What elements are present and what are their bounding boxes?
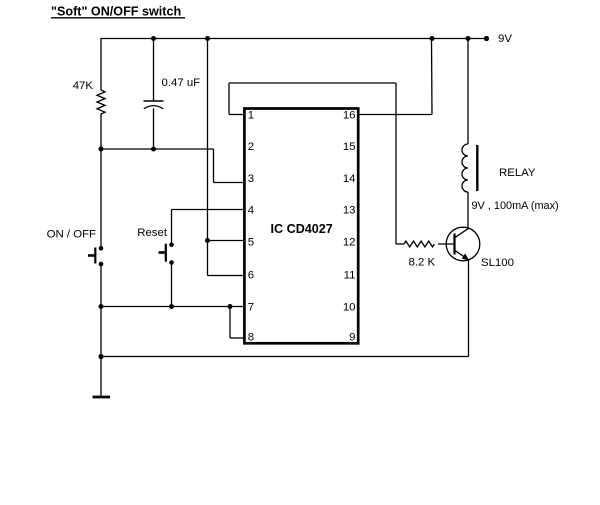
junction dot rail-pin5 vertical xyxy=(205,36,210,41)
wire pin4 down to Reset switch xyxy=(171,210,173,244)
svg-text:RELAY: RELAY xyxy=(499,167,536,179)
relay coil L1 xyxy=(462,144,477,192)
junction dot left-pin7row xyxy=(99,304,104,309)
wire node horizontal xyxy=(101,148,214,150)
svg-text:SL100: SL100 xyxy=(481,257,514,269)
svg-text:4: 4 xyxy=(248,205,254,217)
svg-text:8: 8 xyxy=(248,332,254,344)
wire pin 5 xyxy=(208,240,245,242)
wire relay branch upper xyxy=(467,39,469,145)
wire pin1 up xyxy=(228,83,230,115)
svg-text:Reset: Reset xyxy=(137,227,168,239)
switch Reset xyxy=(159,242,174,264)
wire 47K branch lower xyxy=(100,114,102,149)
resistor 47K xyxy=(97,90,105,114)
wire pin16 up to rail xyxy=(431,39,434,115)
IC U1 CD4027 body xyxy=(244,109,358,344)
switch ON/OFF xyxy=(88,246,103,266)
wire top 9V rail xyxy=(101,38,488,40)
svg-text:9V: 9V xyxy=(498,33,512,45)
svg-text:13: 13 xyxy=(343,205,356,217)
svg-text:ON / OFF: ON / OFF xyxy=(47,229,96,241)
svg-text:3: 3 xyxy=(248,173,254,185)
svg-text:10: 10 xyxy=(343,302,356,314)
wire rail to pin6 vertical xyxy=(207,39,209,276)
wire pin 6 xyxy=(208,275,245,277)
svg-text:9: 9 xyxy=(349,332,355,344)
wire pin 7 row xyxy=(101,306,245,308)
svg-text:1: 1 xyxy=(248,110,254,122)
junction dot bottom wire xyxy=(98,354,103,359)
wire relay to collector xyxy=(467,192,469,229)
svg-text:6: 6 xyxy=(248,270,254,282)
svg-text:16: 16 xyxy=(343,110,356,122)
svg-text:47K: 47K xyxy=(73,80,94,92)
junction dot pin5 xyxy=(205,238,210,243)
wire 8.2K lead left xyxy=(396,243,404,245)
wire bottom return xyxy=(101,356,469,358)
wire pin 16 xyxy=(358,114,432,116)
svg-text:15: 15 xyxy=(343,141,356,153)
wire pin 8 xyxy=(230,337,245,339)
svg-text:7: 7 xyxy=(248,302,254,314)
junction dot rail-capacitor xyxy=(151,36,156,41)
svg-text:0.47 uF: 0.47 uF xyxy=(162,77,201,89)
wire pin 3 xyxy=(214,182,245,184)
node 9V terminal dot xyxy=(484,36,489,41)
junction dot rail-pin16 xyxy=(430,36,435,41)
resistor 8.2K xyxy=(404,241,434,247)
svg-text:12: 12 xyxy=(343,237,356,249)
wire pin 1 xyxy=(229,114,245,116)
wire emitter down xyxy=(468,260,470,357)
svg-text:8.2 K: 8.2 K xyxy=(409,257,436,269)
transistor Q1 SL100 xyxy=(446,227,480,261)
wire Reset switch down xyxy=(171,263,173,307)
wire node to ON/OFF switch xyxy=(100,149,102,247)
svg-text:"Soft" ON/OFF switch: "Soft" ON/OFF switch xyxy=(51,5,181,19)
junction dot pin8 branch xyxy=(228,304,233,309)
wire 47K branch upper xyxy=(100,39,102,91)
svg-text:9V , 100mA (max): 9V , 100mA (max) xyxy=(472,200,559,212)
svg-text:11: 11 xyxy=(344,270,356,282)
junction dot reset-pin7row xyxy=(169,304,174,309)
wire left ground vertical xyxy=(100,307,102,398)
svg-text:2: 2 xyxy=(248,141,254,153)
junction dot node-47K xyxy=(99,147,104,152)
svg-text:5: 5 xyxy=(248,237,254,249)
title "Soft" ON/OFF switch xyxy=(51,5,185,19)
wire node down to pin3 xyxy=(213,149,215,183)
wire pin 4 xyxy=(172,209,245,211)
wire pin8 vertical xyxy=(229,307,231,339)
junction dot rail-relay xyxy=(466,36,471,41)
svg-text:14: 14 xyxy=(343,173,356,185)
wire pin1 top horizontal xyxy=(229,82,396,84)
wire capacitor branch upper xyxy=(153,39,155,102)
ground xyxy=(93,396,111,399)
capacitor C1 0.47uF xyxy=(144,101,164,109)
junction dot node-capacitor xyxy=(151,147,156,152)
wire base lead xyxy=(438,243,455,245)
wire pin1 down to base resistor xyxy=(395,83,397,244)
svg-text:IC CD4027: IC CD4027 xyxy=(271,222,333,236)
wire ON/OFF switch to ground rail xyxy=(100,264,102,307)
wire capacitor branch lower xyxy=(153,108,155,149)
